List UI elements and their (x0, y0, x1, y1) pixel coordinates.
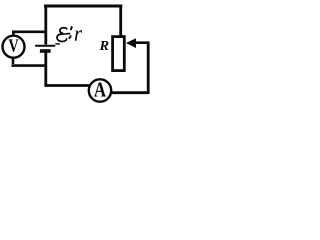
wiper arrow line (133, 41, 150, 44)
label comma (69, 35, 71, 38)
ammeter U2 circle (89, 79, 111, 101)
wire battery vertical top (44, 5, 47, 45)
resistor R body (113, 37, 125, 71)
label EMF prime mark (71, 26, 72, 30)
wire voltmeter top (12, 32, 47, 36)
voltmeter letter V (9, 39, 19, 51)
ammeter letter A (94, 83, 106, 97)
label R (99, 41, 108, 50)
wiper arrowhead (126, 38, 136, 48)
label EMF middle arm (58, 34, 69, 35)
label EMF underline dash (55, 43, 60, 45)
voltmeter U1 circle (3, 36, 25, 58)
wire bottom left to ammeter (44, 84, 89, 87)
wire bottom right (112, 91, 148, 94)
top wire (44, 5, 122, 8)
wire right vertical (147, 43, 150, 94)
label r (75, 30, 82, 40)
battery short plate (negative) (40, 49, 51, 53)
wire resistor feed (119, 5, 122, 37)
wire battery vertical bottom (44, 52, 47, 86)
label EMF script E (57, 28, 67, 42)
wire voltmeter bottom (12, 58, 48, 66)
battery long plate (positive) (35, 45, 55, 47)
